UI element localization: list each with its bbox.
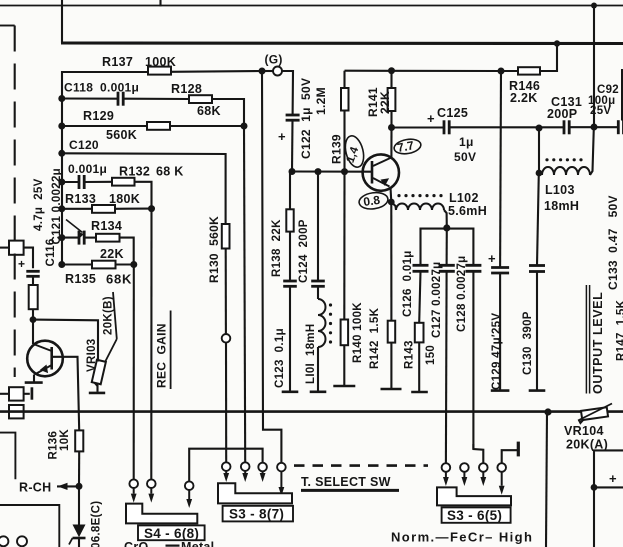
svg-text:T. SELECT SW: T. SELECT SW xyxy=(301,475,391,489)
switch body S3-8(7) xyxy=(218,483,292,503)
potentiometer VR103 wiper arrow xyxy=(94,339,117,384)
wire vertical from top edge to B+ bus xyxy=(61,0,63,43)
wire R137 left corner xyxy=(62,72,148,99)
terminal bar mid xyxy=(31,387,34,399)
svg-text:C128 0.0027μ: C128 0.0027μ xyxy=(456,256,468,333)
meter ellipse 0.8 xyxy=(358,191,389,211)
capacitor C129 xyxy=(491,266,509,269)
resistor R140 xyxy=(343,172,345,320)
svg-text:22K: 22K xyxy=(378,91,392,114)
terminal open circle R130 line xyxy=(222,334,231,343)
svg-text:50V: 50V xyxy=(454,150,476,164)
node C121 wire left xyxy=(58,234,65,241)
transistor Q102 emitter lead xyxy=(373,178,390,187)
svg-text:R133: R133 xyxy=(65,192,96,206)
svg-text:C124 200P: C124 200P xyxy=(298,219,310,283)
wire C127 down to S3-6 contact1 xyxy=(445,271,448,463)
meter ellipse 7.7 xyxy=(393,137,422,155)
contact circle S3-6 no4 xyxy=(497,463,506,472)
wire C131 to node xyxy=(569,126,594,128)
svg-text:R128: R128 xyxy=(171,82,202,96)
svg-text:68K: 68K xyxy=(197,104,221,118)
svg-text:10K: 10K xyxy=(59,429,71,451)
ground bar Q101 emitter xyxy=(25,381,43,384)
svg-text:+: + xyxy=(427,111,435,126)
svg-text:L102: L102 xyxy=(449,191,479,205)
connector pin circle 2 xyxy=(17,536,27,546)
wire connector down to S3-8 contact1 xyxy=(225,343,227,463)
svg-text:68 K: 68 K xyxy=(156,165,184,179)
wire collector Q101 xyxy=(32,320,34,344)
transistor Q101 body xyxy=(27,341,63,377)
wire G to C122 xyxy=(282,71,293,115)
wire R146 left lead xyxy=(501,70,518,72)
capacitor C122 xyxy=(286,114,300,117)
underline T select xyxy=(301,489,399,492)
terminal bar NC xyxy=(517,442,520,457)
wire top horizontal rail xyxy=(0,5,623,7)
resistor R142 xyxy=(390,202,392,321)
node L103/C133 junction xyxy=(591,124,598,131)
contact arrow S3-8 no3 xyxy=(262,471,264,473)
wire S3-6 contact4 to NC bar xyxy=(502,450,517,463)
capacitor C116 xyxy=(26,270,39,273)
potentiometer VR104 wiper xyxy=(578,404,612,421)
svg-text:L103: L103 xyxy=(545,183,575,197)
svg-text:R129: R129 xyxy=(83,109,114,123)
svg-text:R143: R143 xyxy=(404,340,416,369)
svg-text:C130 390P: C130 390P xyxy=(522,311,534,375)
dash between CrO2-Metal xyxy=(166,544,180,546)
wire L101 down xyxy=(317,347,319,391)
node R132/R133 junction xyxy=(148,205,155,212)
svg-text:R136: R136 xyxy=(48,431,60,460)
svg-text:560K: 560K xyxy=(106,128,137,142)
svg-text:S4 - 6(8): S4 - 6(8) xyxy=(144,526,199,541)
capacitor C124 xyxy=(311,280,325,283)
diode D zener 6.8E xyxy=(78,486,80,524)
wire R133 right xyxy=(115,208,152,210)
wire emitter Q102 down xyxy=(389,188,392,203)
capacitor C133 xyxy=(617,120,620,134)
connector block bottom-left xyxy=(0,505,59,547)
contact circle S3-6 no2 xyxy=(460,463,469,472)
contact arrow S3-8 no2 xyxy=(244,471,246,473)
svg-text:0.001μ: 0.001μ xyxy=(68,162,107,176)
node L103 left / C130 xyxy=(536,170,543,177)
ground bar C123 xyxy=(282,390,299,393)
svg-text:06.8E(C): 06.8E(C) xyxy=(91,501,103,547)
svg-text:5.6mH: 5.6mH xyxy=(448,204,487,218)
wire C116 to R127 xyxy=(32,277,34,286)
wire R136 to node xyxy=(78,451,80,486)
svg-text:0.8: 0.8 xyxy=(362,193,381,209)
connector pin circle 1 xyxy=(0,536,8,546)
transistor Q102 base bar xyxy=(371,161,374,184)
svg-text:+: + xyxy=(488,251,496,266)
wire C124 to L101 xyxy=(317,286,319,299)
ground bar VR103 xyxy=(89,392,105,395)
svg-text:1.2M: 1.2M xyxy=(314,87,328,115)
wire C122 node row xyxy=(292,170,372,172)
capacitor C123 xyxy=(283,280,297,283)
resistor R133 xyxy=(92,205,115,213)
wire node to C128 xyxy=(447,229,474,266)
svg-text:R138 22K: R138 22K xyxy=(271,219,283,277)
transistor Q102 collector lead xyxy=(373,158,391,167)
dashed T-select line xyxy=(294,464,428,467)
wire junction down to S4 contact2 xyxy=(150,209,152,480)
wire VR103 bottom stem xyxy=(96,385,98,392)
svg-text:R140 100K: R140 100K xyxy=(352,302,364,363)
node C124 top xyxy=(315,168,322,175)
dashed shield line left xyxy=(14,26,16,378)
svg-text:2.2K: 2.2K xyxy=(510,91,538,105)
contact arrow S3-6 no2 xyxy=(463,472,465,477)
svg-text:C121 0.0022μ: C121 0.0022μ xyxy=(51,168,63,245)
connector square on bus xyxy=(9,405,24,418)
wire VR103 wiper feed xyxy=(113,292,117,339)
node R127/base junction xyxy=(30,316,37,323)
svg-text:C125: C125 xyxy=(437,106,468,120)
svg-text:C120: C120 xyxy=(69,138,99,152)
inductor L102 xyxy=(396,204,444,211)
svg-text:C127 0.0027μ: C127 0.0027μ xyxy=(431,262,443,339)
contact arrow S3-6 no1 xyxy=(445,472,447,477)
wire C129 down xyxy=(499,273,501,390)
node R141 top xyxy=(388,67,395,74)
capacitor C128 xyxy=(465,264,481,267)
wire collector node to C125 xyxy=(392,126,445,128)
svg-text:R137: R137 xyxy=(102,55,133,69)
svg-text:Norm.—FeCr– High: Norm.—FeCr– High xyxy=(391,530,533,545)
contact arrow S3-6 no4 xyxy=(501,472,503,486)
ground bar R143 xyxy=(411,391,428,394)
svg-text:CrO₂: CrO₂ xyxy=(124,540,154,547)
contact arrow S4 no1 xyxy=(133,488,135,494)
transistor Q101 base bar xyxy=(50,347,53,370)
wire base Q101 right xyxy=(52,357,79,431)
svg-text:+: + xyxy=(609,471,617,486)
ground bar R140 xyxy=(333,385,355,388)
label box S3-8(7) xyxy=(223,506,293,522)
svg-text:180K: 180K xyxy=(109,192,140,206)
contact circle S4 no3 xyxy=(185,481,194,490)
wire C118 left xyxy=(62,97,118,99)
svg-text:+: + xyxy=(18,257,25,271)
label box S4-6(8) xyxy=(138,525,205,540)
svg-text:C123 0.1μ: C123 0.1μ xyxy=(274,328,286,388)
wire bus node down xyxy=(546,412,547,547)
connector square input xyxy=(9,241,24,255)
capacitor C121 xyxy=(78,231,81,245)
wire R141 to collector node xyxy=(390,111,392,128)
label box S3-6(5) xyxy=(442,507,511,522)
terminal (G) open circle xyxy=(273,67,282,76)
wire C128 down to S3-6 contact3 xyxy=(473,271,483,463)
core dots L101 xyxy=(329,303,332,306)
svg-text:R142 1.5K: R142 1.5K xyxy=(369,307,381,369)
resistor R127 xyxy=(29,285,38,309)
wire C118 to R128 xyxy=(123,98,189,100)
wire R130 to connector xyxy=(225,249,227,335)
contact circle S3-8 no4 xyxy=(277,463,286,472)
meter ellipse 1.4 xyxy=(342,134,366,169)
node top rail x594 xyxy=(591,3,597,9)
svg-text:R135: R135 xyxy=(65,272,96,286)
potentiometer VR103 body xyxy=(92,360,106,384)
wire R135 left xyxy=(62,263,92,265)
svg-text:C126 0.01μ: C126 0.01μ xyxy=(402,250,414,317)
node R130 wire left xyxy=(58,150,65,157)
ground bus horizontal xyxy=(0,410,623,413)
wire C130 down xyxy=(536,272,538,390)
contact circle S4 no1 xyxy=(129,479,138,488)
wire square mid right xyxy=(24,393,30,395)
contact circle S3-8 no2 xyxy=(241,462,250,471)
wire left bus vertical xyxy=(61,99,63,265)
svg-text:100K: 100K xyxy=(145,55,176,69)
svg-text:22K: 22K xyxy=(100,247,124,261)
wire node to C127 xyxy=(446,228,448,265)
potentiometer VR104 body xyxy=(581,407,608,420)
svg-text:0.001μ: 0.001μ xyxy=(100,81,139,95)
wire input to C116 xyxy=(24,248,33,269)
node ground bus S3-6 feed xyxy=(544,408,551,415)
trimmer arrow over C121 xyxy=(66,220,83,233)
underline REC GAIN xyxy=(170,311,172,390)
svg-text:C129 47μ′25V: C129 47μ′25V xyxy=(491,313,503,390)
svg-text:OUTPUT LEVEL: OUTPUT LEVEL xyxy=(591,292,605,394)
svg-text:REC GAIN: REC GAIN xyxy=(154,323,168,388)
wire R138 to C123 xyxy=(289,232,291,281)
resistor R128 xyxy=(189,95,212,103)
wire R129 node down to S3-8 contact2 xyxy=(244,126,245,462)
wire C129 feed xyxy=(499,71,502,268)
wire S3-6 contact3 feed bend xyxy=(472,444,474,449)
wire R135 right xyxy=(116,263,134,265)
contact arrow S4 no3 xyxy=(188,490,190,499)
node R128/R129 junction xyxy=(241,123,248,130)
wire stub from top edge at x160 xyxy=(159,0,161,6)
wire next-stage down xyxy=(593,487,595,547)
wire R146 right lead up to bus xyxy=(540,44,557,72)
wire C130 feed xyxy=(538,128,540,173)
resistor R139 xyxy=(343,71,345,88)
wire R133 left xyxy=(62,208,92,210)
capacitor C130 xyxy=(529,264,545,267)
wire emitter to L102 xyxy=(391,202,396,210)
svg-text:LI0I 18mH: LI0I 18mH xyxy=(305,323,317,384)
wire emitter down xyxy=(33,375,35,382)
resistor R137 xyxy=(148,67,171,75)
wire node to C133 xyxy=(594,126,618,128)
wire R127 to node xyxy=(32,309,34,319)
transistor Q102 body xyxy=(363,154,399,190)
wire collector-supply horizontal xyxy=(345,70,502,72)
resistor R143 xyxy=(415,323,424,343)
wire R137 to G node xyxy=(171,70,262,73)
resistor R146 xyxy=(518,67,540,74)
switch body S3-6(5) xyxy=(437,487,511,505)
connector square mid xyxy=(9,387,24,400)
core dots L103 xyxy=(545,158,548,161)
capacitor C125 xyxy=(443,120,446,134)
node C120 wire left xyxy=(58,179,65,186)
capacitor C118 xyxy=(117,92,120,106)
wire L102 right down xyxy=(444,210,447,228)
svg-text:150: 150 xyxy=(425,345,437,365)
svg-text:C133 0.47 50V: C133 0.47 50V xyxy=(606,195,620,290)
wire C124 top xyxy=(317,172,319,281)
svg-text:R134: R134 xyxy=(91,219,122,233)
capacitor C126 xyxy=(413,264,429,267)
resistor R130 xyxy=(222,224,230,249)
transistor Q101 emitter lead xyxy=(36,365,52,374)
wire to R130 top xyxy=(62,153,226,224)
node R146/C129 junction xyxy=(498,68,505,75)
resistor R141 xyxy=(390,71,392,88)
resistor R132 xyxy=(112,178,135,186)
shield corner lower xyxy=(0,433,15,480)
B+ thick bus xyxy=(61,41,623,45)
wire next-stage top xyxy=(594,450,623,487)
capacitor C120 xyxy=(78,175,81,189)
wire C123 down xyxy=(289,286,291,391)
resistor R134 xyxy=(96,234,120,242)
svg-text:Metal: Metal xyxy=(181,540,214,547)
ground bar C129 xyxy=(491,389,510,392)
node C130 top feed xyxy=(536,125,543,132)
contact circle S3-6 no3 xyxy=(479,463,488,472)
node B+ bus / R146 feed xyxy=(554,40,560,46)
svg-text:R139: R139 xyxy=(330,134,344,164)
capacitor C127 xyxy=(439,264,455,267)
contact arrow S3-6 no3 xyxy=(482,472,484,477)
dashed shield line top corner xyxy=(0,25,15,27)
ground bar C130 xyxy=(529,389,546,392)
svg-text:C122 1μ 50V: C122 1μ 50V xyxy=(299,78,313,159)
svg-text:R132: R132 xyxy=(119,165,150,179)
node G terminal feed xyxy=(259,68,266,75)
wire S4-S3 link xyxy=(189,449,262,482)
resistor R138 xyxy=(289,172,291,210)
inductor L103 xyxy=(542,167,590,175)
wire R143 down xyxy=(418,342,420,391)
resistor R136 xyxy=(75,430,83,451)
contact arrow S3-8 no4 xyxy=(280,471,282,487)
wire VR103 top xyxy=(33,320,98,362)
svg-text:S3 - 8(7): S3 - 8(7) xyxy=(229,506,284,521)
svg-text:R147 1.5K: R147 1.5K xyxy=(616,299,623,361)
node C118 wire xyxy=(58,95,65,102)
node emitter junction xyxy=(388,199,395,206)
node collector/C125 xyxy=(388,124,395,131)
svg-text:R-CH: R-CH xyxy=(19,481,51,495)
wire junction down to S4 contact1 xyxy=(133,265,135,480)
contact circle S4 no2 xyxy=(147,479,156,488)
wire C120 to R132 xyxy=(84,181,112,183)
svg-text:7.7: 7.7 xyxy=(396,138,415,155)
wire R129 left xyxy=(62,125,147,127)
node next-stage junction xyxy=(591,484,598,491)
signal arrow R-CH xyxy=(57,485,79,487)
contact circle S3-8 no3 xyxy=(258,463,267,472)
wire R128 to corner xyxy=(212,99,244,126)
wire C125 to C131 xyxy=(449,126,564,128)
inductor L101 xyxy=(318,299,326,347)
wire R132 corner down xyxy=(135,182,152,209)
ground bar L101 xyxy=(310,390,327,393)
svg-text:R130 560K: R130 560K xyxy=(207,216,221,283)
svg-text:200P: 200P xyxy=(547,107,577,121)
svg-text:S3 - 6(5): S3 - 6(5) xyxy=(447,508,502,523)
capacitor C131 xyxy=(563,120,566,134)
wire C126 to R143 xyxy=(419,271,420,323)
contact circle S3-6 no1 xyxy=(442,463,451,472)
wire C121 left stub xyxy=(62,237,79,239)
node R-CH junction xyxy=(76,483,83,490)
svg-text:18mH: 18mH xyxy=(544,199,579,213)
wire square mid left xyxy=(0,393,9,395)
wire G-node column down xyxy=(262,71,281,463)
wire C120 left stub xyxy=(62,181,79,183)
node R135 wire left xyxy=(58,261,65,268)
svg-text:+: + xyxy=(278,129,286,144)
wire input left stub xyxy=(0,247,9,249)
node R129 wire left xyxy=(58,123,65,130)
svg-text:68K: 68K xyxy=(106,272,132,287)
node R134/R135 junction xyxy=(130,261,137,268)
contact arrow S3-8 no1 xyxy=(225,471,227,473)
transistor Q101 collector lead xyxy=(33,344,51,351)
svg-text:VRI03: VRI03 xyxy=(86,339,98,372)
wire R134 corner down xyxy=(120,238,134,265)
wire C121 to R134 xyxy=(84,237,96,239)
svg-text:C118: C118 xyxy=(64,81,93,95)
node C122 bottom xyxy=(289,168,296,175)
switch body S4-6(8) xyxy=(126,504,197,524)
node L102/C127 junction xyxy=(443,224,450,231)
contact arrow S4 no2 xyxy=(150,488,152,494)
underline OUTPUT LEVEL xyxy=(585,285,587,394)
svg-text:25V: 25V xyxy=(590,105,611,117)
resistor R135 xyxy=(92,261,116,269)
contact circle S3-8 no1 xyxy=(222,462,231,471)
svg-text:VR104: VR104 xyxy=(564,424,604,438)
svg-text:1μ: 1μ xyxy=(459,135,474,149)
wire node to G circle xyxy=(262,70,273,72)
svg-text:(G): (G) xyxy=(265,53,283,67)
svg-text:20K(B): 20K(B) xyxy=(103,296,115,335)
wire vertical top-rail to node xyxy=(593,6,595,128)
wire node to C126 xyxy=(421,229,447,266)
svg-text:4.7μ 25V: 4.7μ 25V xyxy=(33,178,45,231)
node R139/R140 junction xyxy=(341,168,348,175)
node R133 wire left xyxy=(58,205,65,212)
wire next-stage right xyxy=(594,486,623,488)
resistor R129 xyxy=(147,122,170,130)
ground bar R142 xyxy=(381,388,402,391)
core dots L102 xyxy=(397,194,400,197)
wire R129 right xyxy=(170,125,244,127)
wire L103 right up xyxy=(590,128,594,175)
